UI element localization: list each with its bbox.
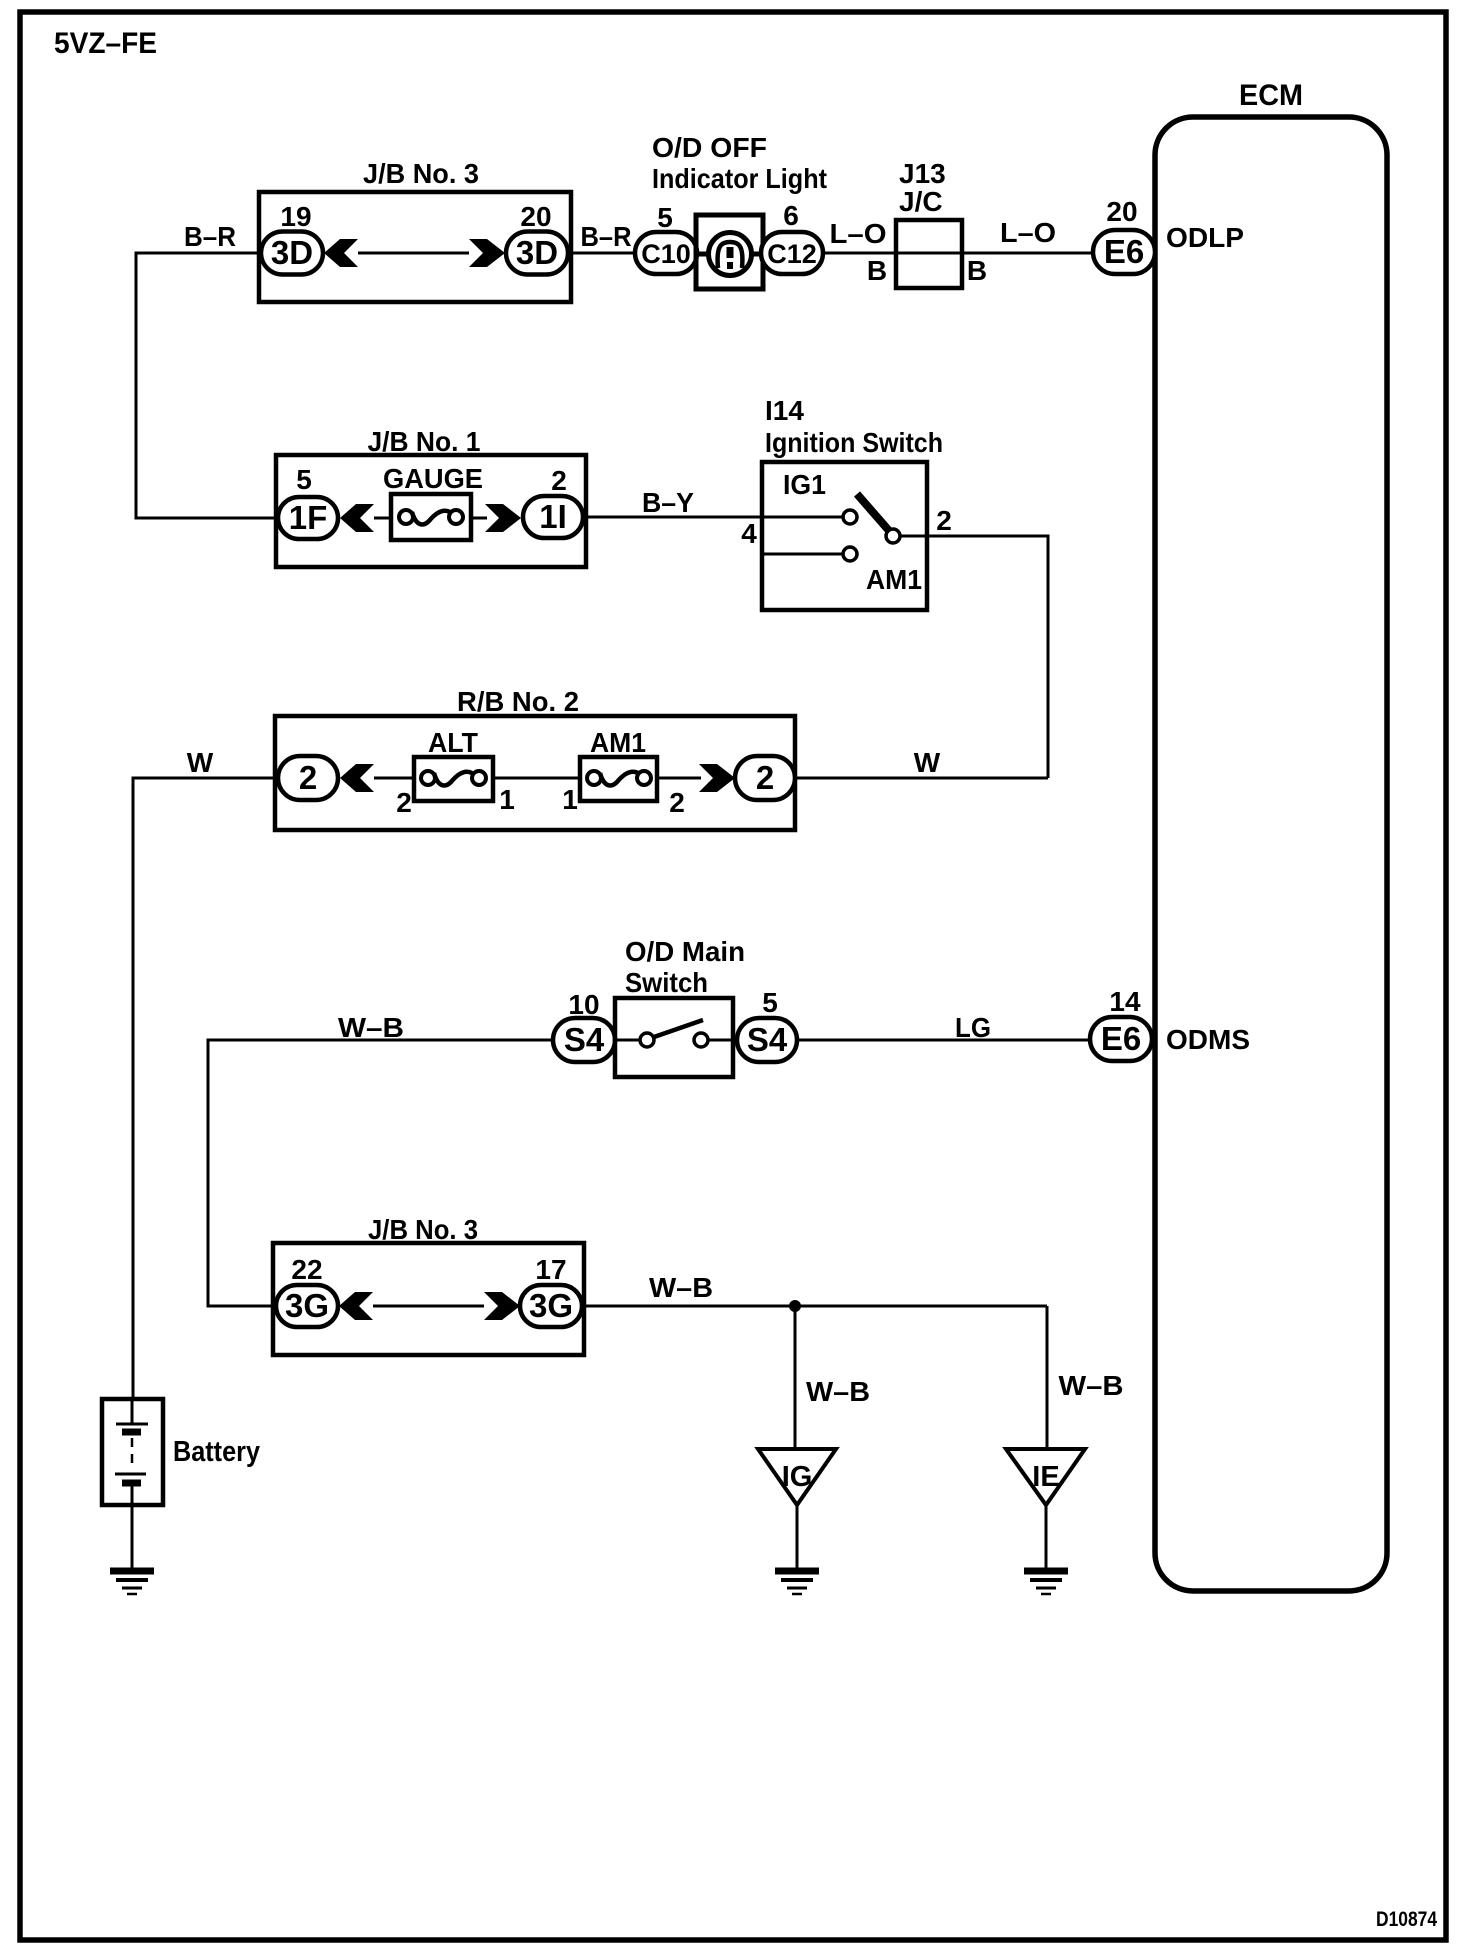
svg-text:D10874: D10874 [1376,1908,1437,1931]
AM1 contact [843,547,857,561]
connector 1I pin 2 [523,496,583,538]
connector 3G pin 17 [520,1285,582,1327]
svg-text:IG: IG [782,1461,813,1493]
label O/D Main Switch [625,936,745,998]
svg-text:B: B [967,255,987,286]
svg-text:ODMS: ODMS [1166,1024,1250,1055]
svg-text:ODLP: ODLP [1166,222,1244,253]
O/D main switch box [615,998,733,1077]
connector C12 [761,232,823,274]
svg-text:2: 2 [551,465,567,496]
svg-text:Battery: Battery [173,1436,260,1468]
wire inside J/B No.3 [373,1305,484,1308]
svg-text:R/B No. 2: R/B No. 2 [457,686,579,717]
connector E6 pin 20 [1093,230,1155,274]
svg-text:LG: LG [955,1012,991,1043]
connector 3D pin 19 [261,232,323,275]
switch wire left [615,1039,640,1042]
svg-text:L–O: L–O [830,218,887,249]
junction block J/B No.1 [276,426,586,567]
svg-text:ECM: ECM [1239,79,1303,112]
wire W-B from O/D main switch to J/B No.3 [208,1040,553,1306]
label J13 J/C [899,158,946,217]
ECM U1 [1155,79,1387,1591]
svg-text:2: 2 [299,759,317,796]
arrow right (toward connector 2 right) [699,764,735,792]
connector 3D pin 20 [506,232,568,275]
wire B-R to indicator light [568,252,636,255]
wire AM1 fuse to arrow [657,777,701,780]
svg-text:GAUGE: GAUGE [383,463,483,494]
fuse AM1 [580,757,657,801]
svg-text:2: 2 [936,505,952,536]
svg-text:22: 22 [291,1254,322,1285]
relay block R/B No.2 [275,686,795,830]
arrow left (toward 3D pin 19) [324,239,358,267]
svg-text:J13: J13 [899,158,946,189]
svg-text:J/B No. 1: J/B No. 1 [368,426,481,457]
svg-text:S4: S4 [564,1021,605,1058]
ground point IG [758,1449,836,1505]
connector S4 pin 10 [553,1018,615,1062]
svg-text:ALT: ALT [428,727,478,758]
battery [102,1399,163,1570]
arrow right (toward 3D pin 20) [469,239,505,267]
ignition switch I14 box [762,462,927,610]
svg-text:2: 2 [396,787,412,818]
svg-text:19: 19 [280,201,311,232]
arrow left (toward connector 2) [340,764,374,792]
svg-text:B–R: B–R [184,221,236,252]
svg-text:5: 5 [296,464,312,495]
arrow left (toward 1F) [340,504,374,532]
svg-text:Indicator Light: Indicator Light [652,163,827,194]
connector 2 left [278,756,338,800]
svg-text:W–B: W–B [338,1012,404,1043]
node W-B junction [789,1300,801,1312]
svg-text:1: 1 [562,784,578,815]
wire L-O from C12 through J13 to ECM pin E6 [823,252,1093,255]
svg-text:17: 17 [535,1254,566,1285]
wire to IG1 contact [762,516,843,519]
arrow right (toward 3G pin 17) [484,1292,520,1320]
svg-text:W: W [187,747,214,778]
svg-text:5: 5 [657,202,673,233]
IG1 contact [843,510,857,524]
connector 3G pin 22 [276,1285,338,1327]
svg-text:W–B: W–B [1059,1370,1124,1401]
svg-text:J/B No. 3: J/B No. 3 [363,158,479,189]
fuse ALT [414,757,493,801]
svg-text:B–Y: B–Y [642,487,694,518]
svg-text:2: 2 [669,787,685,818]
svg-text:5VZ–FE: 5VZ–FE [54,27,157,60]
svg-text:Switch: Switch [625,967,708,998]
svg-text:2: 2 [756,759,774,796]
svg-text:1I: 1I [539,498,567,535]
svg-text:3D: 3D [271,234,313,271]
lamp (O/D OFF indicator bulb) [696,215,763,289]
svg-text:W–B: W–B [649,1272,713,1303]
svg-text:C10: C10 [641,239,691,269]
svg-text:3G: 3G [529,1287,573,1324]
svg-text:L–O: L–O [1000,217,1056,248]
wire inside J/B No.3 [358,252,469,255]
svg-text:E6: E6 [1104,233,1144,270]
connector S4 pin 5 [737,1018,797,1062]
svg-text:AM1: AM1 [866,564,922,595]
switch contact right [694,1033,708,1047]
connector 2 right [735,756,795,800]
svg-text:10: 10 [568,989,599,1020]
wire down to IG ground [794,1306,797,1450]
arrow left (toward 3G pin 22) [339,1292,373,1320]
wire to fuse [374,517,391,520]
svg-text:B–R: B–R [581,221,632,252]
svg-text:E6: E6 [1101,1020,1141,1057]
svg-text:B: B [867,255,887,286]
svg-text:S4: S4 [747,1021,788,1058]
wire fuse to arrow [471,517,487,520]
svg-text:IG1: IG1 [783,469,826,500]
junction connector J13 [896,220,962,288]
svg-text:W: W [914,747,941,778]
svg-text:IE: IE [1032,1461,1059,1493]
svg-text:O/D OFF: O/D OFF [652,132,767,163]
svg-text:O/D Main: O/D Main [625,936,745,967]
svg-text:6: 6 [783,200,799,231]
label I14 Ignition Switch [765,395,943,458]
switch lever [857,494,891,533]
wire W from R/B No.2 to battery [133,778,278,1399]
svg-text:1: 1 [499,784,515,815]
wire W from R/B No.2 to ignition switch [795,777,1048,780]
switch wire right [708,1039,733,1042]
wire from ignition pin 2 down to R/B No.2 [900,536,1048,778]
arrow right (toward 1I) [485,504,521,532]
switch lever [654,1020,703,1037]
svg-text:5: 5 [762,987,778,1018]
svg-text:W–B: W–B [806,1376,870,1407]
wire B-R from J/B No.3 pin 19 to J/B No.1 pin 5 [136,253,279,518]
svg-text:14: 14 [1109,986,1141,1017]
wire LG to ECM pin E6 [797,1039,1090,1042]
wire ALT fuse to AM1 fuse [493,777,580,780]
svg-text:AM1: AM1 [590,727,646,758]
svg-text:I14: I14 [765,395,804,426]
connector E6 pin 14 [1090,1017,1152,1061]
svg-text:20: 20 [1106,196,1137,227]
wire IG to ground [796,1505,799,1570]
ground symbol IG [775,1571,819,1594]
wire to AM1 contact [762,553,843,556]
wire arrow to ALT fuse [374,777,414,780]
connector C10 [635,232,697,274]
svg-text:4: 4 [741,518,757,549]
wire B-Y from 1I to ignition switch [583,516,762,519]
connector 1F pin 5 [278,497,338,539]
wire W-B from 3G pin 17 to grounds [582,1305,1047,1308]
junction block J/B No.3 (bottom) [273,1214,584,1355]
svg-text:20: 20 [520,201,551,232]
svg-text:J/B No. 3: J/B No. 3 [368,1214,478,1245]
svg-text:Ignition Switch: Ignition Switch [765,427,943,458]
svg-text:J/C: J/C [899,186,943,217]
fuse GAUGE [391,494,471,540]
svg-text:3G: 3G [285,1287,329,1324]
svg-text:1F: 1F [289,499,328,536]
switch contact left [640,1033,654,1047]
wire IE to ground [1045,1505,1048,1570]
label O/D OFF Indicator Light [652,132,827,194]
ground symbol IE [1024,1571,1068,1594]
junction block J/B No.3 (top) [259,158,571,302]
svg-text:3D: 3D [516,234,558,271]
svg-text:C12: C12 [767,239,817,269]
ground symbol battery [110,1571,154,1594]
ground point IE [1006,1449,1085,1505]
wire down to IE ground [1046,1306,1049,1450]
pivot contact [886,529,900,543]
